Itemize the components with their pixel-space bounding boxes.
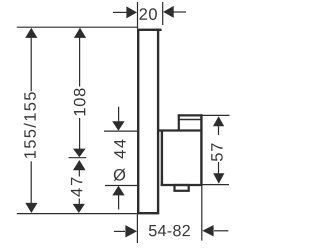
mid reference tick at 108 — [69, 157, 87, 159]
label 108 — [74, 88, 86, 115]
dimension 108 line lower — [79, 118, 81, 150]
reference tick cap top right — [202, 114, 229, 116]
arrowhead 54-82 right — [202, 225, 213, 236]
dimension 54-82 left extension line — [136, 215, 138, 244]
dimension 57 line upper — [218, 125, 220, 135]
bottom reference line — [17, 213, 138, 215]
cartridge cap top edge — [178, 114, 203, 116]
arrowhead 155 top — [25, 28, 37, 38]
dimension 54-82 left tail — [114, 230, 125, 232]
arrowhead 57 bottom — [213, 173, 224, 184]
arrowhead 108 bottom — [73, 149, 86, 158]
dimension 44 line upper — [118, 107, 120, 122]
valve body top edge — [158, 129, 203, 131]
bottom outlet tab — [175, 185, 189, 191]
arrowhead 47 bottom — [73, 204, 85, 213]
arrowhead 20 left — [126, 6, 137, 18]
arrowhead 57 top — [213, 116, 224, 126]
cartridge cap left edge — [178, 114, 180, 130]
label 57 — [211, 143, 223, 161]
arrowhead 44 top — [112, 121, 124, 131]
dimension 47 line upper — [78, 170, 80, 177]
dimension 108 line upper — [79, 31, 81, 87]
dimension 20 right extension line — [162, 2, 164, 25]
label 44 — [114, 139, 125, 158]
dimension 20 left extension line — [137, 2, 139, 29]
dimension 155 line lower — [30, 161, 32, 209]
label diameter symbol — [114, 169, 126, 181]
arrowhead 54-82 left — [125, 225, 137, 237]
reference tick body bottom right — [202, 184, 229, 186]
dimension 54-82 right tail — [214, 230, 228, 232]
reference tick body bottom left — [105, 185, 138, 187]
dimension 57 line lower — [218, 162, 220, 174]
cartridge cap inner line — [179, 119, 201, 121]
dimension 20 left tail — [113, 11, 127, 13]
dimension 54-82 right extension line — [201, 186, 203, 241]
top reference line — [17, 26, 138, 28]
label 155/155 — [24, 92, 36, 158]
dimension 47 line lower — [78, 199, 80, 206]
valve body right edge — [200, 114, 202, 185]
arrowhead 44 bottom — [112, 186, 124, 196]
wall plate top lip — [156, 29, 162, 31]
arrowhead 155 bottom — [25, 203, 37, 213]
label 54-82 — [149, 225, 190, 236]
reference tick body top left — [104, 130, 138, 132]
label 47 — [71, 178, 82, 197]
arrowhead 47 top — [73, 160, 86, 170]
label 20 — [140, 8, 157, 20]
valve body bottom edge — [161, 184, 203, 186]
dimension 155 line upper — [30, 31, 32, 91]
dimension 20 right tail — [173, 11, 186, 13]
arrowhead 108 top — [74, 28, 86, 38]
arrowhead 20 right — [163, 6, 174, 18]
valve body left edge — [161, 130, 163, 186]
dimension 44 line lower — [118, 195, 120, 210]
wall plate outline — [138, 30, 158, 213]
